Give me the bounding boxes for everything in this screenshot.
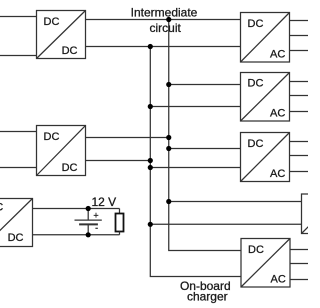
svg-text:DC: DC: [248, 78, 264, 90]
svg-text:DC: DC: [248, 138, 264, 150]
svg-text:-: -: [95, 223, 98, 233]
svg-text:AC: AC: [270, 108, 285, 120]
svg-text:circuit: circuit: [150, 21, 182, 35]
svg-text:DC: DC: [8, 232, 24, 244]
svg-text:DC: DC: [44, 131, 60, 143]
svg-text:DC: DC: [0, 202, 3, 214]
svg-text:12 V: 12 V: [92, 195, 117, 209]
svg-text:DC: DC: [248, 18, 264, 30]
svg-text:DC: DC: [62, 45, 78, 57]
svg-text:DC: DC: [62, 162, 78, 174]
svg-text:Intermediate: Intermediate: [131, 6, 198, 20]
svg-text:+: +: [93, 210, 98, 220]
svg-text:AC: AC: [271, 274, 286, 286]
svg-text:DC: DC: [44, 16, 60, 28]
svg-text:AC: AC: [270, 168, 285, 180]
svg-text:charger: charger: [187, 290, 228, 304]
svg-text:DC: DC: [248, 244, 264, 256]
svg-text:AC: AC: [270, 48, 285, 60]
